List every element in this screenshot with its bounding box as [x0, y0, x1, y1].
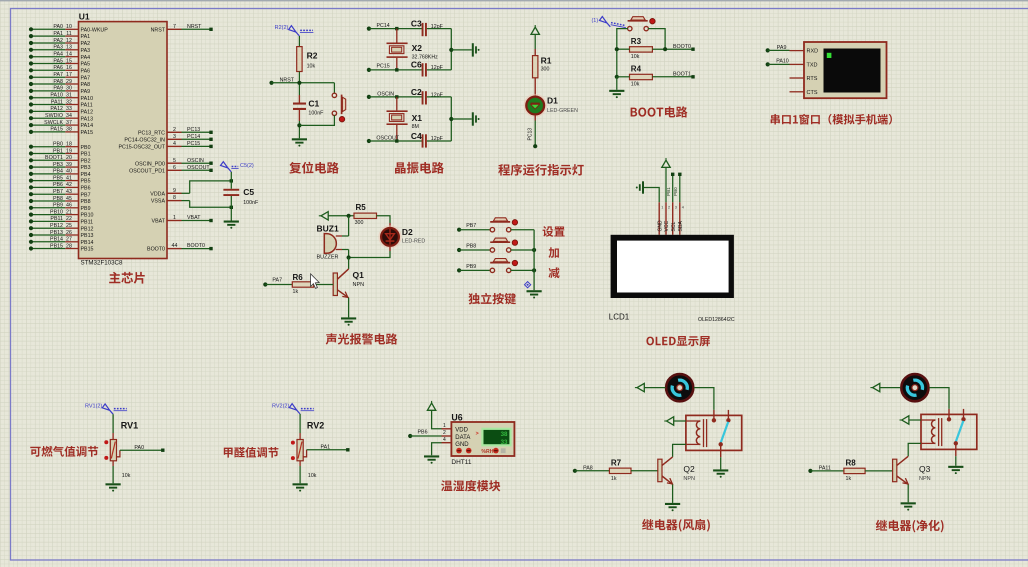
svg-text:100nF: 100nF [308, 110, 324, 116]
svg-text:10k: 10k [631, 54, 640, 60]
svg-text:1: 1 [443, 423, 446, 429]
svg-text:PB4: PB4 [81, 172, 91, 178]
resistor R2 [297, 47, 318, 72]
svg-text:STM32F103C8: STM32F103C8 [81, 259, 124, 266]
svg-text:PA15: PA15 [81, 130, 94, 136]
wire pwr-fan2 [880, 387, 901, 389]
label 减 [549, 267, 560, 278]
svg-text:10k: 10k [631, 81, 640, 87]
wire OLED SCL [666, 173, 674, 203]
caption 程序运行指示灯 [498, 164, 583, 176]
svg-text:PB1: PB1 [81, 152, 91, 158]
svg-text:PC15-OSC32_OUT: PC15-OSC32_OUT [118, 145, 165, 151]
svg-text:2: 2 [668, 206, 670, 210]
DHT pin 4 GND [442, 437, 470, 448]
svg-text:DATA: DATA [455, 435, 470, 441]
svg-text:PA15: PA15 [50, 127, 63, 133]
pin PB4 (40) wire+label [29, 169, 91, 178]
svg-text:PA5: PA5 [53, 58, 63, 64]
svg-text:VDDA: VDDA [150, 191, 165, 197]
svg-text:300: 300 [355, 220, 364, 226]
svg-text:PB1: PB1 [666, 187, 671, 196]
svg-text:100nF: 100nF [243, 200, 259, 206]
wire R6-base [314, 284, 334, 286]
pin VDDA (9) right wire [150, 188, 189, 198]
caption 复位电路 [289, 162, 339, 174]
svg-text:PA4: PA4 [81, 55, 91, 61]
svg-text:D1: D1 [547, 96, 558, 106]
svg-text:44: 44 [172, 243, 178, 249]
svg-text:PB9: PB9 [466, 264, 476, 270]
svg-text:PC13: PC13 [528, 128, 534, 141]
svg-text:10k: 10k [307, 63, 316, 69]
svg-text:PB7: PB7 [466, 223, 476, 229]
svg-text:SCL: SCL [671, 222, 677, 232]
svg-text:LCD1: LCD1 [609, 313, 630, 322]
pin PB10 (21) wire+label [29, 209, 94, 218]
resistor R1 [533, 56, 552, 78]
svg-text:19: 19 [66, 148, 72, 154]
caption 串口1窗口（模拟手机端） [771, 114, 892, 125]
caption 继电器(净化) [876, 520, 944, 533]
DHT display [476, 429, 511, 446]
svg-text:PA11: PA11 [81, 103, 93, 109]
svg-text:VBAT: VBAT [187, 215, 201, 221]
pin PA9 (30) wire+label [29, 86, 90, 95]
svg-text:OSCIN_PD0: OSCIN_PD0 [135, 161, 165, 167]
wire PB9-button [459, 269, 491, 271]
wire OLED SDA [673, 173, 681, 203]
wire VCC-R1 [534, 34, 536, 55]
svg-text:C3: C3 [411, 19, 422, 29]
terminal pin RXD [790, 49, 819, 55]
wire fan1-relay [694, 388, 714, 410]
svg-text:PB8: PB8 [81, 199, 91, 205]
svg-text:PB9: PB9 [81, 206, 91, 212]
svg-text:11: 11 [66, 31, 72, 37]
svg-text:8: 8 [173, 195, 176, 201]
svg-text:30: 30 [66, 86, 72, 92]
svg-text:PB7: PB7 [53, 189, 63, 195]
capacitor C5 [223, 187, 259, 206]
caption 声光报警电路 [326, 333, 398, 344]
caption 可燃气值调节 [30, 446, 98, 457]
svg-text:PB11: PB11 [50, 216, 63, 222]
sensor U6 DHT11 body [451, 413, 514, 466]
svg-text:PB15: PB15 [50, 243, 63, 249]
wire RV2 wiper [303, 445, 349, 457]
svg-text:RV2(2): RV2(2) [272, 404, 289, 410]
ground X2 (rotated) [472, 43, 480, 56]
caption 晶振电路 [395, 162, 444, 174]
svg-text:PA5: PA5 [81, 62, 91, 68]
pin PA12 (33) wire+label [29, 106, 93, 115]
svg-text:PA11: PA11 [51, 99, 63, 105]
svg-text:PB0: PB0 [53, 142, 63, 148]
OLED pin GND [657, 202, 663, 235]
power symbol OLED VCC [662, 158, 670, 167]
wire button bottom [299, 115, 334, 125]
wire RV2 top [299, 414, 301, 440]
pin PB14 (27) wire+label [29, 237, 94, 246]
caption BOOT电路 [631, 106, 688, 117]
svg-text:PB4: PB4 [53, 169, 63, 175]
svg-text:NRST: NRST [151, 27, 166, 33]
wire PA7-R6 [265, 284, 292, 286]
ground keys [527, 290, 542, 298]
svg-text:Q2: Q2 [683, 464, 695, 474]
svg-text:PB11: PB11 [81, 220, 94, 226]
wire RV1 wiper [117, 445, 165, 457]
wire VDDA net [190, 179, 233, 193]
power symbol fan1 (left arrow) [635, 383, 644, 391]
pin PB9 (46) wire+label [29, 203, 91, 212]
wire to ground X2 [451, 49, 472, 51]
pin VSSA (8) right wire [151, 195, 190, 205]
wire PB7-button [459, 229, 491, 231]
svg-text:X1: X1 [412, 113, 423, 123]
svg-text:X2: X2 [412, 43, 423, 53]
push button PB7 [490, 218, 517, 232]
svg-text:PA13: PA13 [81, 116, 94, 122]
wire OLED GND [644, 188, 659, 203]
wire NRST-C1 [297, 81, 301, 103]
DHT pin 1 VDD [442, 423, 469, 434]
wire PB8-button [459, 249, 491, 251]
svg-text:PB5: PB5 [53, 175, 63, 181]
caption 温湿度模块 [441, 480, 500, 491]
pin BOOT1 (20) wire+label [29, 155, 91, 164]
wire R3 row [617, 44, 695, 51]
svg-text:43: 43 [66, 189, 72, 195]
pin PA7 (17) wire+label [29, 72, 90, 81]
pin VBAT (1) right wire [152, 215, 213, 225]
wire to ground X1 [451, 118, 472, 120]
node OSCOUT [367, 136, 400, 143]
svg-text:BOOT1: BOOT1 [673, 72, 691, 78]
svg-text:1k: 1k [293, 289, 299, 295]
svg-text:PA1: PA1 [53, 31, 63, 37]
virtual terminal body [804, 42, 887, 98]
net flag RV1(2) [85, 404, 127, 415]
wire key bus [533, 230, 535, 291]
wire pwr-R5 [328, 214, 354, 218]
node PB8 [457, 243, 476, 252]
wire relay1 contact-gnd [720, 457, 722, 469]
svg-text:PA12: PA12 [81, 110, 94, 116]
terminal pin TXD [790, 63, 818, 69]
svg-text:PA6: PA6 [53, 65, 63, 71]
svg-text:PB13: PB13 [81, 233, 94, 239]
crystal X2 [387, 29, 439, 70]
svg-text:RV1: RV1 [121, 421, 138, 431]
svg-text:BOOT0: BOOT0 [147, 247, 165, 253]
node OSCIN [367, 92, 394, 99]
svg-text:PA1: PA1 [321, 445, 331, 451]
wire R7-base Q2 [631, 470, 658, 472]
svg-text:13: 13 [66, 45, 72, 51]
DHT buttons row [456, 448, 505, 455]
wire button-bus PB8 [511, 248, 537, 252]
ground Q1 [341, 317, 356, 325]
svg-text:PA0: PA0 [53, 24, 63, 30]
svg-text:R3: R3 [631, 37, 642, 46]
wire collector [348, 258, 350, 269]
resistor R4 [630, 65, 653, 88]
svg-text:1: 1 [173, 215, 176, 221]
wire to button SW [333, 83, 335, 94]
pin PA4 (14) wire+label [29, 52, 90, 61]
IC U1 STM32F103C8 body [79, 12, 168, 267]
resistor R8 [844, 459, 865, 482]
svg-text:Q1: Q1 [353, 270, 365, 280]
svg-text:R1: R1 [541, 56, 552, 66]
svg-text:PB6: PB6 [53, 182, 63, 188]
svg-text:C6: C6 [411, 60, 422, 70]
svg-text:R2(2): R2(2) [275, 25, 289, 31]
svg-text:33: 33 [66, 106, 72, 112]
svg-text:PC15: PC15 [377, 64, 390, 70]
power symbol relay2 coil [900, 416, 909, 424]
wire button-bus PB9 [511, 268, 537, 272]
svg-text:LED-RED: LED-RED [402, 238, 425, 244]
svg-text:BOOT1: BOOT1 [45, 155, 63, 161]
wire D1-PC13 [528, 115, 536, 147]
svg-text:PB15: PB15 [81, 247, 94, 253]
svg-text:TXD: TXD [807, 63, 818, 69]
transistor Q2 NPN [658, 457, 695, 484]
wire X2 right bus [427, 29, 454, 70]
pin PB15 (28) wire+label [29, 243, 94, 252]
svg-text:PB6: PB6 [81, 186, 91, 192]
pin PA0 (10) wire+label [29, 24, 108, 33]
svg-text:PA8: PA8 [81, 82, 91, 88]
net flag R2(2) [275, 25, 314, 36]
svg-text:42: 42 [66, 182, 72, 188]
svg-text:PB9: PB9 [53, 203, 63, 209]
wire fan2-relay [929, 388, 949, 409]
wire pwr-coil1 [674, 420, 686, 422]
wire Q2 emitter-gnd [672, 485, 674, 503]
ground Q3 [901, 502, 916, 510]
svg-text:PB14: PB14 [81, 240, 94, 246]
resistor R3 [630, 37, 653, 60]
node PB9 [457, 264, 476, 273]
svg-text:>: > [476, 431, 479, 437]
svg-text:21: 21 [66, 209, 72, 215]
push button BOOT [628, 17, 656, 31]
pin PA8 (29) wire+label [29, 79, 90, 88]
svg-text:BUZZER: BUZZER [317, 255, 339, 261]
svg-text:33: 33 [501, 439, 508, 446]
svg-text:R2: R2 [307, 51, 318, 61]
svg-text:18: 18 [66, 142, 72, 148]
node PC15 [367, 64, 390, 72]
node PA8 [573, 465, 593, 473]
node PC13 end [533, 144, 537, 148]
capacitor C4 [411, 131, 444, 148]
svg-text:PA7: PA7 [81, 75, 91, 81]
capacitor C3 [411, 19, 444, 37]
svg-text:PA0: PA0 [134, 445, 144, 451]
wire emitter-gnd [348, 298, 350, 318]
svg-text:OSCOUT_PD1: OSCOUT_PD1 [129, 168, 165, 174]
pin PC15-OSC32_OUT (4) right wire [118, 141, 212, 151]
svg-text:PC14: PC14 [187, 134, 200, 140]
svg-text:6: 6 [173, 165, 176, 171]
wire X1 right bus [427, 97, 454, 141]
svg-text:1k: 1k [846, 476, 852, 482]
push button PB8 [490, 238, 517, 252]
svg-text:PC13: PC13 [187, 127, 200, 133]
svg-text:3: 3 [173, 134, 176, 140]
pin PB0 (18) wire+label [29, 142, 91, 151]
svg-text:R4: R4 [631, 65, 642, 74]
svg-text:PB12: PB12 [50, 223, 63, 229]
svg-text:PA3: PA3 [81, 48, 91, 54]
svg-text:38: 38 [501, 431, 508, 438]
svg-text:PB8: PB8 [466, 243, 476, 249]
svg-text:PB1: PB1 [53, 148, 63, 154]
svg-text:20: 20 [66, 155, 72, 161]
wire RV1 top [112, 414, 114, 439]
label 设置 [543, 226, 565, 237]
svg-text:DHT11: DHT11 [451, 459, 471, 466]
resistor R5 [354, 203, 377, 226]
push button PB9 [490, 259, 517, 273]
power symbol (alarm, left arrow) [319, 212, 328, 220]
OLED pin SCL [671, 202, 677, 235]
pin PB6 (42) wire+label [29, 182, 91, 191]
svg-text:RXD: RXD [807, 49, 819, 55]
svg-text:PB14: PB14 [50, 237, 63, 243]
power symbol DHT11 [427, 401, 435, 410]
svg-text:RV1(2): RV1(2) [85, 404, 102, 410]
wire to ground BOOT [616, 77, 618, 90]
svg-text:15: 15 [66, 58, 72, 64]
wire D2 bottom [349, 246, 390, 258]
ground RV2 [293, 483, 308, 491]
svg-text:PA2: PA2 [53, 38, 63, 44]
DHT pin 2 DATA [442, 430, 471, 441]
svg-text:27: 27 [66, 237, 72, 243]
svg-text:12: 12 [66, 38, 72, 44]
svg-text:C5: C5 [243, 187, 254, 197]
transistor Q1 NPN [333, 269, 364, 298]
caption 主芯片 [109, 272, 145, 284]
motor/fan M2 [901, 374, 928, 401]
node PB7 [457, 223, 476, 232]
wire DHT VDD [432, 410, 442, 429]
wire PC15 row [369, 68, 422, 71]
ground relay1 contact [713, 469, 728, 477]
wire R2 top [298, 36, 300, 47]
ground reset [292, 138, 307, 146]
svg-text:VBAT: VBAT [152, 219, 166, 225]
svg-text:BOOT0: BOOT0 [187, 243, 205, 249]
svg-text:4: 4 [173, 141, 176, 147]
svg-text:Q3: Q3 [919, 464, 931, 474]
node PA11 [808, 466, 831, 474]
net flag C5(2) [221, 162, 254, 172]
svg-text:10k: 10k [122, 473, 131, 479]
pin PA6 (16) wire+label [29, 65, 90, 74]
svg-text:PB5: PB5 [81, 179, 91, 185]
wire PA10 [768, 63, 790, 65]
svg-text:PA2: PA2 [81, 41, 91, 47]
ground relay2 contact [948, 466, 963, 474]
svg-text:16: 16 [66, 65, 72, 71]
wire DHT GND [432, 443, 442, 456]
wire R3-R4 left [615, 47, 619, 79]
wire OSCOUT row [369, 139, 422, 142]
svg-text:38: 38 [66, 127, 72, 133]
svg-text:RV2: RV2 [307, 421, 324, 431]
wire R5-D2 [377, 216, 391, 229]
svg-text:C1: C1 [308, 99, 319, 109]
svg-text:PB0: PB0 [81, 145, 91, 151]
pin PA10 (31) wire+label [29, 93, 93, 102]
svg-text:VCC: VCC [664, 221, 670, 232]
ground X1 (rotated) [472, 112, 480, 125]
net flag RV2(2) [272, 404, 314, 414]
svg-text:PB13: PB13 [50, 230, 63, 236]
ground Q2 [665, 503, 680, 511]
potentiometer RV2 [291, 421, 324, 480]
node PC14 [367, 23, 390, 31]
svg-text:PA3: PA3 [53, 45, 63, 51]
node PA9 [766, 45, 787, 53]
svg-text:PA10: PA10 [776, 59, 789, 65]
ground BOOT [609, 90, 624, 98]
wire NRST row [272, 82, 335, 84]
OLED pin VCC [664, 202, 670, 235]
svg-text:VSSA: VSSA [151, 199, 166, 205]
svg-text:OSCOUT: OSCOUT [187, 165, 210, 171]
pin PB13 (26) wire+label [29, 230, 94, 239]
terminal pin RTS [790, 76, 818, 82]
svg-text:300: 300 [541, 66, 550, 72]
wire buzzer bottom [342, 250, 351, 260]
wire R1-D1 [534, 78, 536, 97]
svg-text:(1): (1) [591, 18, 598, 24]
wire button-bus PB7 [511, 229, 535, 231]
svg-text:7: 7 [173, 24, 176, 30]
svg-text:NPN: NPN [683, 476, 695, 482]
pin SWCLK (37) wire+label [29, 120, 93, 129]
ground C5 [224, 221, 239, 229]
wire OSCIN row [369, 95, 422, 98]
wire pwr-fan1 [644, 387, 665, 389]
svg-text:40: 40 [66, 169, 72, 175]
potentiometer RV1 [104, 421, 138, 480]
svg-text:NPN: NPN [919, 476, 931, 482]
caption OLED显示屏 [646, 336, 710, 346]
svg-text:32: 32 [66, 99, 72, 105]
svg-text:PB7: PB7 [81, 192, 91, 198]
wire PA9 [768, 49, 790, 51]
power symbol VCC (D1) [531, 25, 539, 34]
svg-text:PC13_RTC: PC13_RTC [138, 130, 165, 136]
svg-text:26: 26 [66, 230, 72, 236]
svg-text:PA12: PA12 [50, 106, 63, 112]
svg-text:45: 45 [66, 196, 72, 202]
svg-text:37: 37 [66, 120, 72, 126]
pin OSCIN_PD0 (5) right wire [135, 158, 213, 168]
svg-text:PB3: PB3 [53, 162, 63, 168]
svg-text:PB10: PB10 [50, 209, 63, 215]
ground DHT11 [424, 455, 439, 463]
